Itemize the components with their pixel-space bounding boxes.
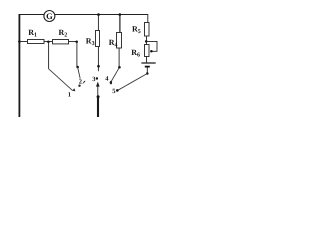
node dot on left bus at R1 row: [18, 40, 21, 43]
wire battery down: [146, 68, 148, 74]
resistor R4: [109, 33, 122, 49]
node B dot after R2: [75, 40, 78, 43]
switch blade 2: [78, 67, 81, 79]
battery long plate: [141, 62, 155, 64]
wire R5 to junction: [146, 36, 148, 41]
svg-text:3: 3: [92, 76, 96, 83]
stub below dot: [97, 67, 99, 71]
wire node A to R2: [48, 41, 52, 43]
dot on R3 wire: [97, 65, 100, 68]
junction dot below R5: [145, 40, 148, 43]
wire R6 to battery: [146, 57, 148, 63]
svg-text:R2: R2: [59, 28, 68, 39]
node A dot between R1 and R2: [47, 40, 50, 43]
wire down from node A: [48, 42, 50, 69]
svg-text:1: 1: [68, 92, 71, 99]
node dot top wire R4 branch: [119, 13, 122, 16]
blade 1 arrowhead: [72, 88, 75, 91]
plug arrow up into terminal 3: [96, 82, 100, 87]
node dot top wire R3 branch: [97, 13, 100, 16]
wire left bus (thick): [18, 14, 20, 118]
wire top bus: [19, 14, 148, 16]
wire R2 to node B: [69, 41, 77, 43]
wire top-right corner down: [147, 14, 149, 23]
wire below R3: [97, 47, 99, 66]
blade 4 tip blob: [110, 81, 112, 84]
blade 2 tip blob: [78, 85, 80, 87]
resistor R2: [53, 28, 69, 44]
resistor R1: [28, 28, 45, 43]
resistor R6: [131, 45, 149, 59]
terminal 3 dot: [96, 77, 98, 79]
galvanometer G: [44, 11, 55, 22]
svg-text:R3: R3: [86, 37, 95, 48]
terminal dot 4 pivot: [118, 66, 121, 69]
svg-text:G: G: [46, 11, 53, 21]
resistor R5: [132, 23, 149, 37]
switch blade 5 to battery: [118, 74, 147, 91]
svg-text:R5: R5: [132, 25, 141, 35]
svg-text:5: 5: [112, 88, 116, 95]
wire junction to R6: [146, 42, 148, 45]
resistor R3: [86, 31, 100, 48]
wire R1 to node A: [44, 41, 48, 43]
wire down to R4: [119, 15, 121, 33]
switch blade 4: [111, 67, 119, 81]
terminal dot 2 pivot: [76, 66, 79, 69]
terminal 5 dot: [116, 89, 119, 92]
wire below R4: [118, 48, 120, 66]
svg-text:R1: R1: [28, 28, 37, 39]
rheostat wiper loop of R6: [146, 41, 157, 51]
wire down to R3: [97, 15, 99, 32]
wire bottom bus (thick): [97, 97, 99, 118]
wiper arrow tip: [150, 50, 153, 53]
small arrow next to label 2: [83, 81, 85, 83]
switch blade 1: [49, 69, 73, 91]
dot at bottom of plug shaft: [97, 95, 100, 98]
svg-text:R6: R6: [131, 48, 140, 59]
wire down from node B: [76, 42, 78, 67]
node dot below battery: [146, 72, 149, 75]
svg-text:4: 4: [105, 76, 109, 83]
wire R1 row left segment: [19, 41, 28, 43]
battery short plate: [145, 66, 150, 68]
